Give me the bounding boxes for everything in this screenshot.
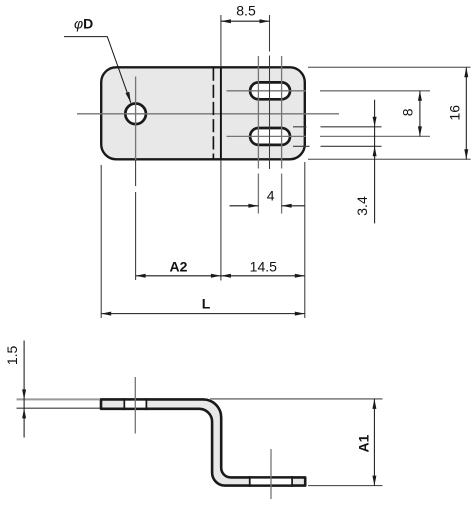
dimension A1: [210, 398, 383, 400]
centerline slot top: [227, 90, 431, 92]
svg-text:L: L: [202, 296, 211, 312]
dimension 16: [465, 67, 467, 159]
bend line dashed: [212, 68, 214, 159]
centerline horizontal main: [77, 113, 339, 115]
svg-text:8.5: 8.5: [236, 2, 256, 18]
dimension 14.5: [221, 275, 305, 277]
extension line hole center below plate: [135, 160, 137, 280]
extension line plate right: [304, 162, 306, 318]
extension line slot2 bottom edge: [293, 145, 382, 147]
dimension 8: [419, 91, 421, 137]
dimension L: [101, 313, 305, 315]
dimension 3.4: [374, 100, 376, 224]
centerline side hole: [134, 377, 136, 434]
extension line slot center vertical: [269, 15, 271, 169]
extension line plate left: [100, 165, 102, 318]
svg-text:3.4: 3.4: [354, 196, 370, 216]
svg-text:1.5: 1.5: [4, 345, 20, 365]
svg-text:A1: A1: [356, 434, 372, 452]
svg-text:φD: φD: [74, 16, 93, 32]
leader phiD: [64, 37, 131, 103]
svg-text:4: 4: [267, 188, 275, 204]
extension line plate top right: [308, 66, 471, 68]
side view band: [101, 399, 305, 485]
extension line bend vertical: [220, 15, 222, 281]
extension line plate bottom right: [308, 158, 471, 160]
centerline side slot: [270, 449, 272, 499]
extension line slot arc left: [257, 56, 259, 214]
hole section bottom flange: [251, 479, 291, 485]
centerline slot bottom: [227, 135, 431, 137]
extension line slot arc right: [281, 56, 283, 214]
svg-text:16: 16: [446, 105, 462, 121]
dimension 8.5: [221, 20, 270, 22]
svg-text:A2: A2: [170, 258, 188, 274]
plate top view outline: [101, 67, 305, 159]
dimension 1.5: [17, 398, 101, 400]
hole section top flange: [125, 401, 145, 408]
bend edge line solid: [220, 67, 222, 159]
dimension 4: [230, 205, 305, 207]
slot 1: [250, 82, 290, 99]
svg-text:14.5: 14.5: [250, 258, 277, 274]
hole phiD: [125, 104, 146, 125]
svg-text:8: 8: [400, 108, 416, 116]
extension line slot2 top edge: [293, 126, 382, 128]
dimension A2: [136, 275, 221, 277]
centerline vertical hole: [135, 77, 137, 161]
slot 2: [250, 128, 290, 145]
